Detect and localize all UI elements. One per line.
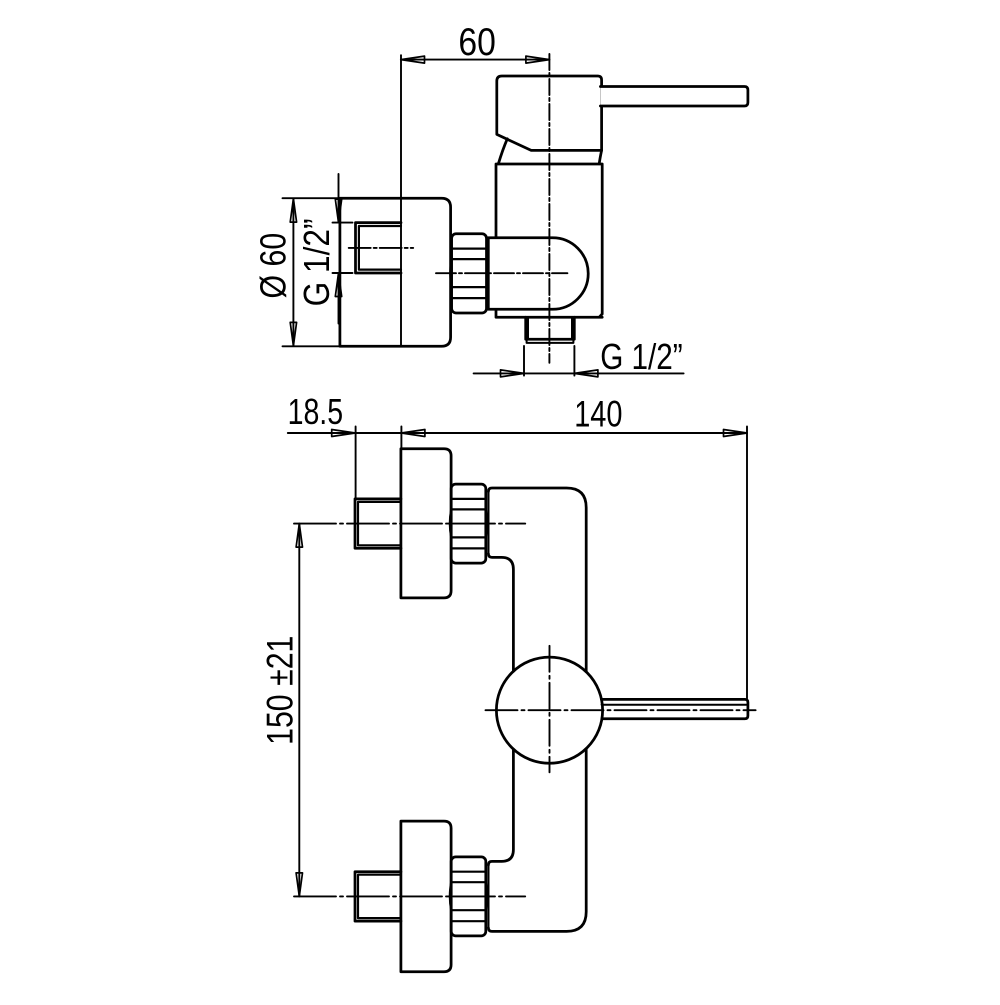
top threaded pipe (plan) (355, 499, 401, 548)
dimension line 150 ±21 (298, 524, 300, 897)
arrowhead up of 150 (296, 524, 302, 548)
valve horizontal centerline (486, 709, 756, 711)
pipe centerline (side view) (349, 247, 414, 249)
arm start verticals at nut (487, 492, 489, 928)
top wall flange (plan) (401, 449, 451, 598)
valve cap circle (plan) (496, 657, 602, 763)
arrowhead down of 150 (296, 873, 302, 897)
bottom hex nut (plan) (451, 857, 486, 936)
arrowhead right-pointing at lever end (724, 430, 748, 437)
svg-text:G 1/2”: G 1/2” (600, 336, 683, 377)
dimension line 60 (401, 59, 550, 61)
svg-text:Ø 60: Ø 60 (253, 233, 294, 299)
extension lines dim G 1/2 (side) (333, 223, 353, 273)
arrowhead top of Ø60 (290, 199, 296, 223)
body inner outline (plan) (488, 554, 513, 865)
body of mixer (side view) (496, 164, 602, 317)
arrowhead right-pointing at outlet left (501, 370, 525, 377)
bottom threaded pipe (plan) (355, 872, 401, 921)
extension line wall plane (355, 427, 357, 499)
vertical centerline of body (side view) (548, 54, 550, 363)
dimension line G 1/2 outlet (474, 372, 684, 374)
valve vertical centerline (549, 646, 551, 773)
top hex nut (plan) (451, 484, 486, 563)
arrowhead right of dim 60 (526, 56, 550, 63)
arrowhead left-pointing at outlet right (574, 370, 598, 377)
body outer outline (plan) (488, 488, 586, 931)
dimension line 18.5 / 140 (288, 432, 747, 434)
bottom fixing centerline (294, 895, 525, 897)
svg-text:G 1/2”: G 1/2” (296, 219, 337, 307)
bottom wall flange (plan) (401, 821, 451, 972)
extension lines dim G 1/2 outlet (524, 346, 574, 376)
wall flange / union (side view) (340, 198, 451, 346)
svg-text:150 ±21: 150 ±21 (259, 636, 300, 745)
svg-text:140: 140 (574, 393, 622, 434)
hex nut (side view) (452, 234, 487, 313)
extension line flange edge (400, 427, 402, 448)
dimension line G 1/2 (side) (338, 174, 340, 324)
inlet axis centerline (side view) (436, 272, 567, 274)
outlet nipple (side view) (526, 317, 575, 339)
neck left arc (498, 139, 507, 164)
arrowhead right-pointing at wall plane (332, 430, 356, 437)
dimension line Ø60 (292, 199, 294, 346)
outlet thread end ring (527, 339, 574, 343)
arrowhead left of dim 60 (401, 56, 425, 63)
wall plane / extension line of dim 60 (400, 55, 402, 346)
lever handle (side view) (600, 87, 748, 107)
threaded wall pipe (side view) (356, 223, 402, 273)
svg-text:18.5: 18.5 (288, 391, 344, 432)
neck right arc (599, 150, 601, 163)
lever handle (plan) (601, 699, 748, 718)
extension lines dim Ø60 (283, 198, 340, 346)
arrowhead up G 1/2 (side) (335, 273, 341, 297)
extension line lever end (746, 427, 748, 699)
top fixing centerline (294, 523, 525, 525)
svg-text:60: 60 (458, 21, 496, 64)
inlet D-block (side view) (488, 238, 588, 309)
cap of cartridge (side view) (497, 76, 602, 150)
arrowhead down G 1/2 (side) (335, 199, 341, 223)
arrowhead left-pointing at flange edge (401, 430, 425, 437)
arrowhead bottom of Ø60 (290, 322, 296, 346)
